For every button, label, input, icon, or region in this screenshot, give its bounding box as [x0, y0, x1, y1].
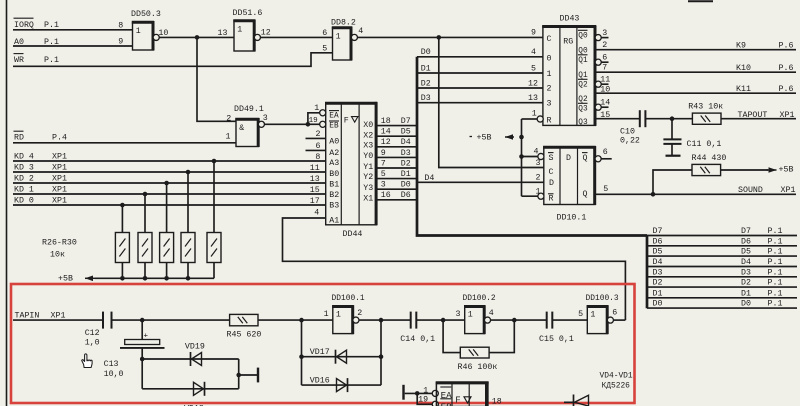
- svg-text:Y3: Y3: [363, 184, 373, 193]
- node KD1 tap junction: [143, 192, 148, 197]
- svg-text:10: 10: [600, 85, 610, 94]
- wire K10 net: [595, 71, 796, 73]
- svg-text:0,22: 0,22: [620, 137, 640, 146]
- svg-text:4: 4: [531, 48, 536, 57]
- svg-text:1: 1: [547, 70, 552, 79]
- svg-text:D1: D1: [653, 289, 663, 298]
- svg-text:R26-R30: R26-R30: [42, 239, 77, 248]
- svg-text:D1: D1: [741, 289, 751, 298]
- svg-text:XP1: XP1: [52, 185, 67, 194]
- svg-text:DD49.1: DD49.1: [234, 105, 264, 114]
- svg-text:D0: D0: [401, 181, 411, 190]
- wire DD44 output D1: [376, 178, 417, 180]
- svg-text:3: 3: [381, 181, 386, 190]
- svg-text:2: 2: [226, 114, 231, 123]
- DD43 R wire from +5B rail: [522, 118, 538, 120]
- svg-text:Y1: Y1: [363, 163, 373, 172]
- svg-text:0: 0: [547, 55, 552, 64]
- svg-text:1: 1: [468, 311, 473, 320]
- svg-text:2: 2: [357, 309, 362, 318]
- svg-text:D: D: [549, 179, 554, 188]
- svg-text:F: F: [344, 116, 349, 125]
- svg-text:12: 12: [528, 79, 538, 88]
- svg-text:5: 5: [322, 44, 327, 53]
- svg-text:4: 4: [489, 309, 494, 318]
- svg-text:R43 10к: R43 10к: [688, 102, 723, 111]
- DD44 pin A1 wire to DD100.3 output: [283, 218, 626, 319]
- svg-text:D4: D4: [741, 258, 751, 267]
- svg-text:+5B: +5B: [477, 134, 492, 143]
- bus tap D4 to DD10.1: [417, 181, 544, 183]
- svg-text:11: 11: [310, 164, 320, 173]
- svg-text:WR: WR: [14, 56, 24, 65]
- DD43 output Q1- stub pin 6: [595, 59, 601, 65]
- svg-text:D7: D7: [653, 227, 663, 236]
- svg-text:A0: A0: [329, 137, 339, 146]
- bus tap D0 to DD43: [417, 56, 543, 58]
- node junction ladder tap: [236, 373, 241, 378]
- svg-text:D5: D5: [741, 248, 751, 257]
- wire DD8.2 out to DD43 pin C: [357, 36, 543, 38]
- node junction to DD10.1 C: [437, 35, 442, 40]
- svg-text:D3: D3: [653, 268, 663, 277]
- svg-text:VD16: VD16: [310, 377, 330, 386]
- diode VD bottom cut: [573, 395, 575, 406]
- node KD3 tap junction: [186, 170, 191, 175]
- DD44 pin EA bubble: [320, 110, 326, 116]
- wire DD100.3 out up to A1 wire: [613, 319, 625, 321]
- capacitor C11 to ground: [671, 119, 673, 140]
- wire DD43 pin 15 to C10: [595, 118, 640, 120]
- wire SOUND net: [595, 193, 796, 195]
- capacitor C12: [102, 312, 104, 329]
- svg-text:C12: C12: [85, 329, 100, 338]
- svg-text:IORQ: IORQ: [14, 21, 34, 30]
- terminal stub bottom chip: [402, 385, 404, 400]
- svg-text:P.6: P.6: [779, 64, 794, 73]
- svg-text:C: C: [547, 35, 552, 44]
- svg-text:4: 4: [358, 27, 363, 36]
- svg-text:P.1: P.1: [768, 258, 783, 267]
- bus tap D3 to DD43: [417, 102, 543, 104]
- capacitor C14: [410, 312, 412, 329]
- node junction C11: [670, 116, 675, 121]
- svg-text:5: 5: [603, 185, 608, 194]
- svg-text:P.1: P.1: [768, 248, 783, 257]
- svg-text:R46 100к: R46 100к: [458, 363, 498, 372]
- svg-text:C13: C13: [104, 360, 119, 369]
- svg-text:13: 13: [218, 29, 228, 38]
- svg-text:B3: B3: [329, 202, 339, 211]
- svg-text:VD4-VD1: VD4-VD1: [600, 372, 633, 381]
- wire WR to DD8.2 pin 5: [13, 53, 333, 67]
- svg-text:R45 620: R45 620: [227, 331, 262, 340]
- svg-text:1: 1: [226, 132, 231, 141]
- svg-text:5: 5: [531, 64, 536, 73]
- svg-text:KD 2: KD 2: [14, 174, 34, 183]
- wire K11 net: [595, 92, 796, 94]
- svg-text:3: 3: [456, 310, 461, 319]
- svg-text:D7: D7: [401, 117, 411, 126]
- svg-text:VD19: VD19: [185, 343, 205, 352]
- DD43 pin R bubble: [537, 116, 543, 122]
- svg-text:K9: K9: [736, 42, 746, 51]
- svg-text:D6: D6: [653, 237, 663, 246]
- svg-text:P.1: P.1: [768, 227, 783, 236]
- svg-text:RD: RD: [14, 134, 24, 143]
- wire VD19/VD18 ladder: [141, 359, 143, 389]
- capacitor C15: [546, 312, 548, 329]
- svg-text:KD 3: KD 3: [14, 163, 34, 172]
- svg-text:8: 8: [118, 21, 123, 30]
- wire to DD10.1 pin C: [439, 37, 544, 167]
- wire D6 to P.1: [647, 245, 797, 247]
- wire KD2 to DD44: [13, 182, 326, 184]
- wire A0 to DD50.3 pin 9: [13, 45, 133, 47]
- svg-text:D3: D3: [401, 149, 411, 158]
- svg-text:DD51.6: DD51.6: [233, 9, 263, 18]
- svg-text:TAPIN: TAPIN: [15, 312, 40, 321]
- svg-text:R: R: [549, 195, 554, 204]
- node KD4 tap junction: [212, 159, 217, 164]
- svg-text:VD17: VD17: [310, 348, 330, 357]
- wire DD44 output D4: [376, 146, 417, 148]
- svg-text:6: 6: [316, 142, 321, 151]
- node junction to DD49.1: [195, 35, 200, 40]
- svg-text:14: 14: [381, 128, 391, 137]
- svg-text:XP1: XP1: [51, 312, 66, 321]
- wire KD4 to DD44: [13, 160, 326, 162]
- wire RD to DD49.1 pin 1: [13, 142, 236, 144]
- svg-text:2: 2: [536, 173, 541, 182]
- svg-text:1: 1: [536, 187, 541, 196]
- svg-text:XP1: XP1: [781, 186, 796, 195]
- svg-text:Q3: Q3: [578, 106, 588, 114]
- wire KD0 to DD44: [13, 204, 326, 206]
- resistor R46 branch: [443, 320, 460, 353]
- svg-text:1: 1: [314, 104, 319, 113]
- wire C10 to R43: [645, 118, 692, 120]
- wire DD44 output D6: [376, 199, 417, 201]
- wire DD49.1 out to DD44 EA/EB: [264, 123, 308, 125]
- svg-text:P.1: P.1: [768, 268, 783, 277]
- svg-text:A1: A1: [329, 217, 339, 226]
- svg-text:+5B: +5B: [58, 275, 73, 284]
- svg-text:D2: D2: [653, 279, 663, 288]
- svg-text:D0: D0: [741, 300, 751, 309]
- svg-text:12: 12: [381, 138, 391, 147]
- terminal stub left group: [239, 374, 257, 376]
- sheet frame border: [6, 0, 8, 406]
- svg-text:&: &: [239, 124, 244, 133]
- wire TAPIN to C12: [13, 319, 103, 321]
- DD10.1 pin Q- stub pin 6: [595, 156, 601, 162]
- svg-text:DD8.2: DD8.2: [331, 19, 356, 28]
- svg-text:19: 19: [309, 117, 319, 125]
- svg-text:Y0: Y0: [363, 152, 373, 161]
- svg-text:P.6: P.6: [779, 85, 794, 94]
- DD44 pin A2 stub: [306, 149, 326, 151]
- bus fanout vertical: [646, 236, 649, 309]
- wire +5B vertical rail to S and R: [521, 119, 523, 196]
- svg-text:EA: EA: [441, 390, 453, 401]
- svg-text:P.1: P.1: [768, 237, 783, 246]
- svg-text:EB: EB: [329, 123, 339, 131]
- svg-text:D0: D0: [653, 300, 663, 309]
- capacitor C10: [639, 110, 641, 127]
- svg-text:A3: A3: [329, 159, 339, 168]
- svg-text:DD100.2: DD100.2: [463, 294, 496, 303]
- svg-text:15: 15: [310, 186, 320, 195]
- svg-text:D7: D7: [741, 227, 751, 236]
- svg-text:B0: B0: [329, 170, 339, 179]
- svg-text:KD 1: KD 1: [14, 185, 34, 194]
- svg-text:11: 11: [600, 76, 610, 85]
- svg-text:7: 7: [602, 64, 607, 73]
- svg-text:1: 1: [336, 311, 341, 320]
- svg-text:17: 17: [310, 197, 320, 206]
- svg-text:1: 1: [532, 109, 537, 118]
- svg-text:13: 13: [310, 175, 320, 184]
- svg-text:F: F: [455, 396, 460, 406]
- svg-text:D: D: [566, 154, 571, 163]
- svg-text:9: 9: [381, 149, 386, 158]
- svg-text:EB: EB: [441, 402, 453, 406]
- svg-text:DD100.1: DD100.1: [332, 294, 365, 303]
- wire R stub: [522, 195, 539, 197]
- svg-text:D1: D1: [401, 170, 411, 179]
- svg-text:1: 1: [336, 33, 341, 42]
- svg-text:A2: A2: [329, 149, 339, 158]
- wire D2 to P.1: [647, 286, 797, 288]
- svg-text:6: 6: [603, 148, 608, 157]
- svg-text:13: 13: [528, 94, 538, 103]
- svg-text:XP1: XP1: [52, 152, 67, 161]
- svg-text:D0: D0: [421, 48, 431, 57]
- svg-text:D1: D1: [421, 64, 431, 73]
- wire D1 to P.1: [647, 297, 797, 299]
- wire R44 to +5B: [721, 169, 768, 171]
- svg-text:X3: X3: [363, 142, 373, 151]
- svg-text:P.1: P.1: [44, 56, 59, 65]
- svg-text:K10: K10: [736, 64, 751, 73]
- wire K9 net: [595, 49, 796, 51]
- svg-text:2: 2: [547, 85, 552, 94]
- svg-text:D6: D6: [401, 191, 411, 200]
- svg-text:3: 3: [536, 159, 541, 168]
- svg-text:DD10.1: DD10.1: [557, 214, 587, 223]
- svg-text:Q: Q: [583, 154, 588, 163]
- wire IORQ to DD50.3 pin 8: [13, 29, 133, 31]
- wire D7 to P.1: [647, 235, 797, 237]
- svg-text:XP1: XP1: [52, 196, 67, 205]
- svg-text:B1: B1: [329, 180, 339, 189]
- svg-text:5: 5: [578, 310, 583, 319]
- wire S stub: [522, 156, 539, 158]
- svg-text:7: 7: [381, 159, 386, 168]
- wire from junction down to DD49.1 pin 2: [197, 37, 236, 121]
- svg-text:9: 9: [118, 38, 123, 47]
- svg-text:D4: D4: [401, 138, 411, 147]
- svg-text:EA: EA: [329, 112, 339, 120]
- svg-text:B2: B2: [329, 191, 339, 200]
- svg-text:DD43: DD43: [560, 14, 580, 23]
- svg-text:X1: X1: [363, 194, 373, 203]
- svg-text:DD44: DD44: [343, 230, 363, 239]
- node junction VD ladder right: [379, 318, 384, 323]
- svg-text:P.6: P.6: [779, 42, 794, 51]
- IC bottom cut body: [432, 390, 438, 396]
- svg-text:D3: D3: [421, 94, 431, 103]
- svg-text:DD100.3: DD100.3: [586, 294, 619, 303]
- svg-text:D2: D2: [421, 79, 431, 88]
- svg-text:1: 1: [136, 27, 141, 36]
- svg-text:P.4: P.4: [52, 134, 67, 143]
- svg-text:DD50.3: DD50.3: [131, 10, 161, 19]
- wire D3 to P.1: [647, 276, 797, 278]
- wire R45 to DD100.1: [258, 319, 333, 321]
- DD44 pin A0 stub: [306, 137, 326, 139]
- svg-text:C14 0,1: C14 0,1: [400, 335, 435, 344]
- wire KD1 to DD44: [13, 193, 326, 195]
- svg-text:D6: D6: [741, 237, 751, 246]
- bus data lines: [417, 57, 647, 236]
- svg-text:TAPOUT: TAPOUT: [738, 111, 768, 120]
- DD44 pin EB bubble: [320, 121, 326, 127]
- wire DD44 output D3: [376, 156, 417, 158]
- svg-text:19: 19: [418, 395, 428, 404]
- wire DD44 output D7: [376, 125, 417, 127]
- diode VD18: [204, 382, 206, 396]
- node junction C13: [140, 318, 145, 323]
- svg-text:6: 6: [602, 54, 607, 63]
- svg-text:P.1: P.1: [768, 279, 783, 288]
- svg-text:10,0: 10,0: [104, 370, 124, 379]
- svg-text:9: 9: [531, 28, 536, 37]
- node KD0 tap junction: [120, 203, 125, 208]
- wire D0 to P.1: [647, 307, 797, 309]
- node junction R46 right: [512, 318, 517, 323]
- svg-text:D2: D2: [401, 159, 411, 168]
- svg-text:Q1: Q1: [578, 57, 588, 65]
- svg-text:XP1: XP1: [52, 174, 67, 183]
- DD10.1 pin S bubble: [538, 153, 544, 159]
- svg-text:D4: D4: [653, 258, 663, 267]
- svg-text:Q0: Q0: [578, 33, 588, 41]
- svg-text:KD 0: KD 0: [14, 196, 34, 205]
- svg-text:Q2: Q2: [578, 82, 588, 90]
- svg-text:K11: K11: [736, 85, 751, 94]
- svg-text:RG: RG: [563, 37, 573, 46]
- svg-text:18: 18: [492, 397, 502, 406]
- svg-text:3: 3: [602, 29, 607, 38]
- svg-text:2: 2: [316, 130, 321, 139]
- svg-text:C: C: [549, 168, 554, 177]
- svg-text:KD 4: KD 4: [14, 152, 34, 161]
- svg-text:D2: D2: [741, 279, 751, 288]
- svg-text:D5: D5: [401, 128, 411, 137]
- wire C15 to DD100.3: [552, 319, 587, 321]
- svg-text:Q3: Q3: [578, 119, 588, 127]
- wire KD3 to DD44: [13, 171, 326, 173]
- wire DD44 output D0: [376, 188, 417, 190]
- svg-text:Q: Q: [583, 190, 588, 199]
- IC DD10.1 body: [544, 147, 595, 205]
- wire DD51.6 out to DD8.2 pin 6: [260, 36, 332, 38]
- wire DD50.3 out to DD51.6 pin 13: [159, 36, 234, 38]
- svg-text:C11 0,1: C11 0,1: [687, 140, 722, 149]
- node junction bottom chip input: [415, 391, 420, 396]
- svg-text:R: R: [547, 117, 552, 126]
- node junction VD ladder left: [299, 318, 304, 323]
- wire C14 to DD100.2: [416, 319, 464, 321]
- svg-text:3: 3: [263, 114, 268, 123]
- mouse cursor hand: [82, 354, 92, 368]
- capacitor C13 electrolytic: [141, 320, 143, 339]
- svg-text:КД5226: КД5226: [602, 382, 631, 391]
- svg-text:SOUND: SOUND: [738, 186, 763, 195]
- svg-text:X2: X2: [363, 132, 373, 141]
- svg-text:+5B: +5B: [779, 165, 794, 174]
- svg-text:P.1: P.1: [768, 289, 783, 298]
- svg-text:14: 14: [600, 99, 610, 108]
- svg-text:XP1: XP1: [780, 111, 795, 120]
- svg-text:1: 1: [324, 310, 329, 319]
- svg-text:4: 4: [314, 209, 319, 218]
- svg-text:15: 15: [600, 111, 610, 120]
- node KD2 tap junction: [164, 181, 169, 186]
- svg-text:12: 12: [261, 29, 271, 38]
- svg-text:4: 4: [534, 147, 539, 156]
- svg-text:6: 6: [322, 29, 327, 38]
- bus tap D2 to DD43: [417, 87, 543, 89]
- wire D5 to P.1: [647, 255, 797, 257]
- svg-text:1: 1: [590, 311, 595, 320]
- node junction R46 left: [441, 318, 446, 323]
- power +5B arrow mid: [505, 136, 514, 138]
- svg-text:16: 16: [381, 191, 391, 200]
- svg-text:D5: D5: [653, 248, 663, 257]
- svg-text:C15 0,1: C15 0,1: [539, 335, 574, 344]
- wire R43 to TAPOUT: [721, 118, 796, 120]
- svg-text:8: 8: [315, 153, 320, 162]
- svg-text:2: 2: [602, 41, 607, 50]
- svg-text:D4: D4: [424, 174, 434, 183]
- wire DD100.2 out to C15: [490, 319, 546, 321]
- DD43 output Q2- stub pin 11: [595, 81, 601, 87]
- svg-text:10к: 10к: [50, 251, 65, 260]
- bus tap D1 to DD43: [417, 72, 543, 74]
- DD10.1 pin R bubble: [538, 193, 544, 199]
- wire resistor columns: [121, 205, 123, 233]
- svg-text:P.1: P.1: [768, 300, 783, 309]
- svg-text:6: 6: [612, 309, 617, 318]
- svg-text:S: S: [549, 154, 554, 163]
- svg-text:3: 3: [547, 100, 552, 109]
- wire DD44 output D5: [376, 135, 417, 137]
- svg-text:X0: X0: [363, 121, 373, 130]
- svg-text:Y2: Y2: [363, 173, 373, 182]
- resistor bank R26-R30: [115, 233, 129, 263]
- wire R44 left leg to SOUND: [653, 170, 692, 194]
- wire DD44 output D2: [376, 167, 417, 169]
- wire D4 to P.1: [647, 266, 797, 268]
- wire VD17/VD16 ladder: [301, 320, 303, 385]
- IC DD44 body: [326, 103, 377, 225]
- svg-text:P.1: P.1: [44, 21, 59, 30]
- svg-text:1,0: 1,0: [85, 338, 100, 347]
- DD43 output Q3- stub pin 14: [595, 104, 601, 110]
